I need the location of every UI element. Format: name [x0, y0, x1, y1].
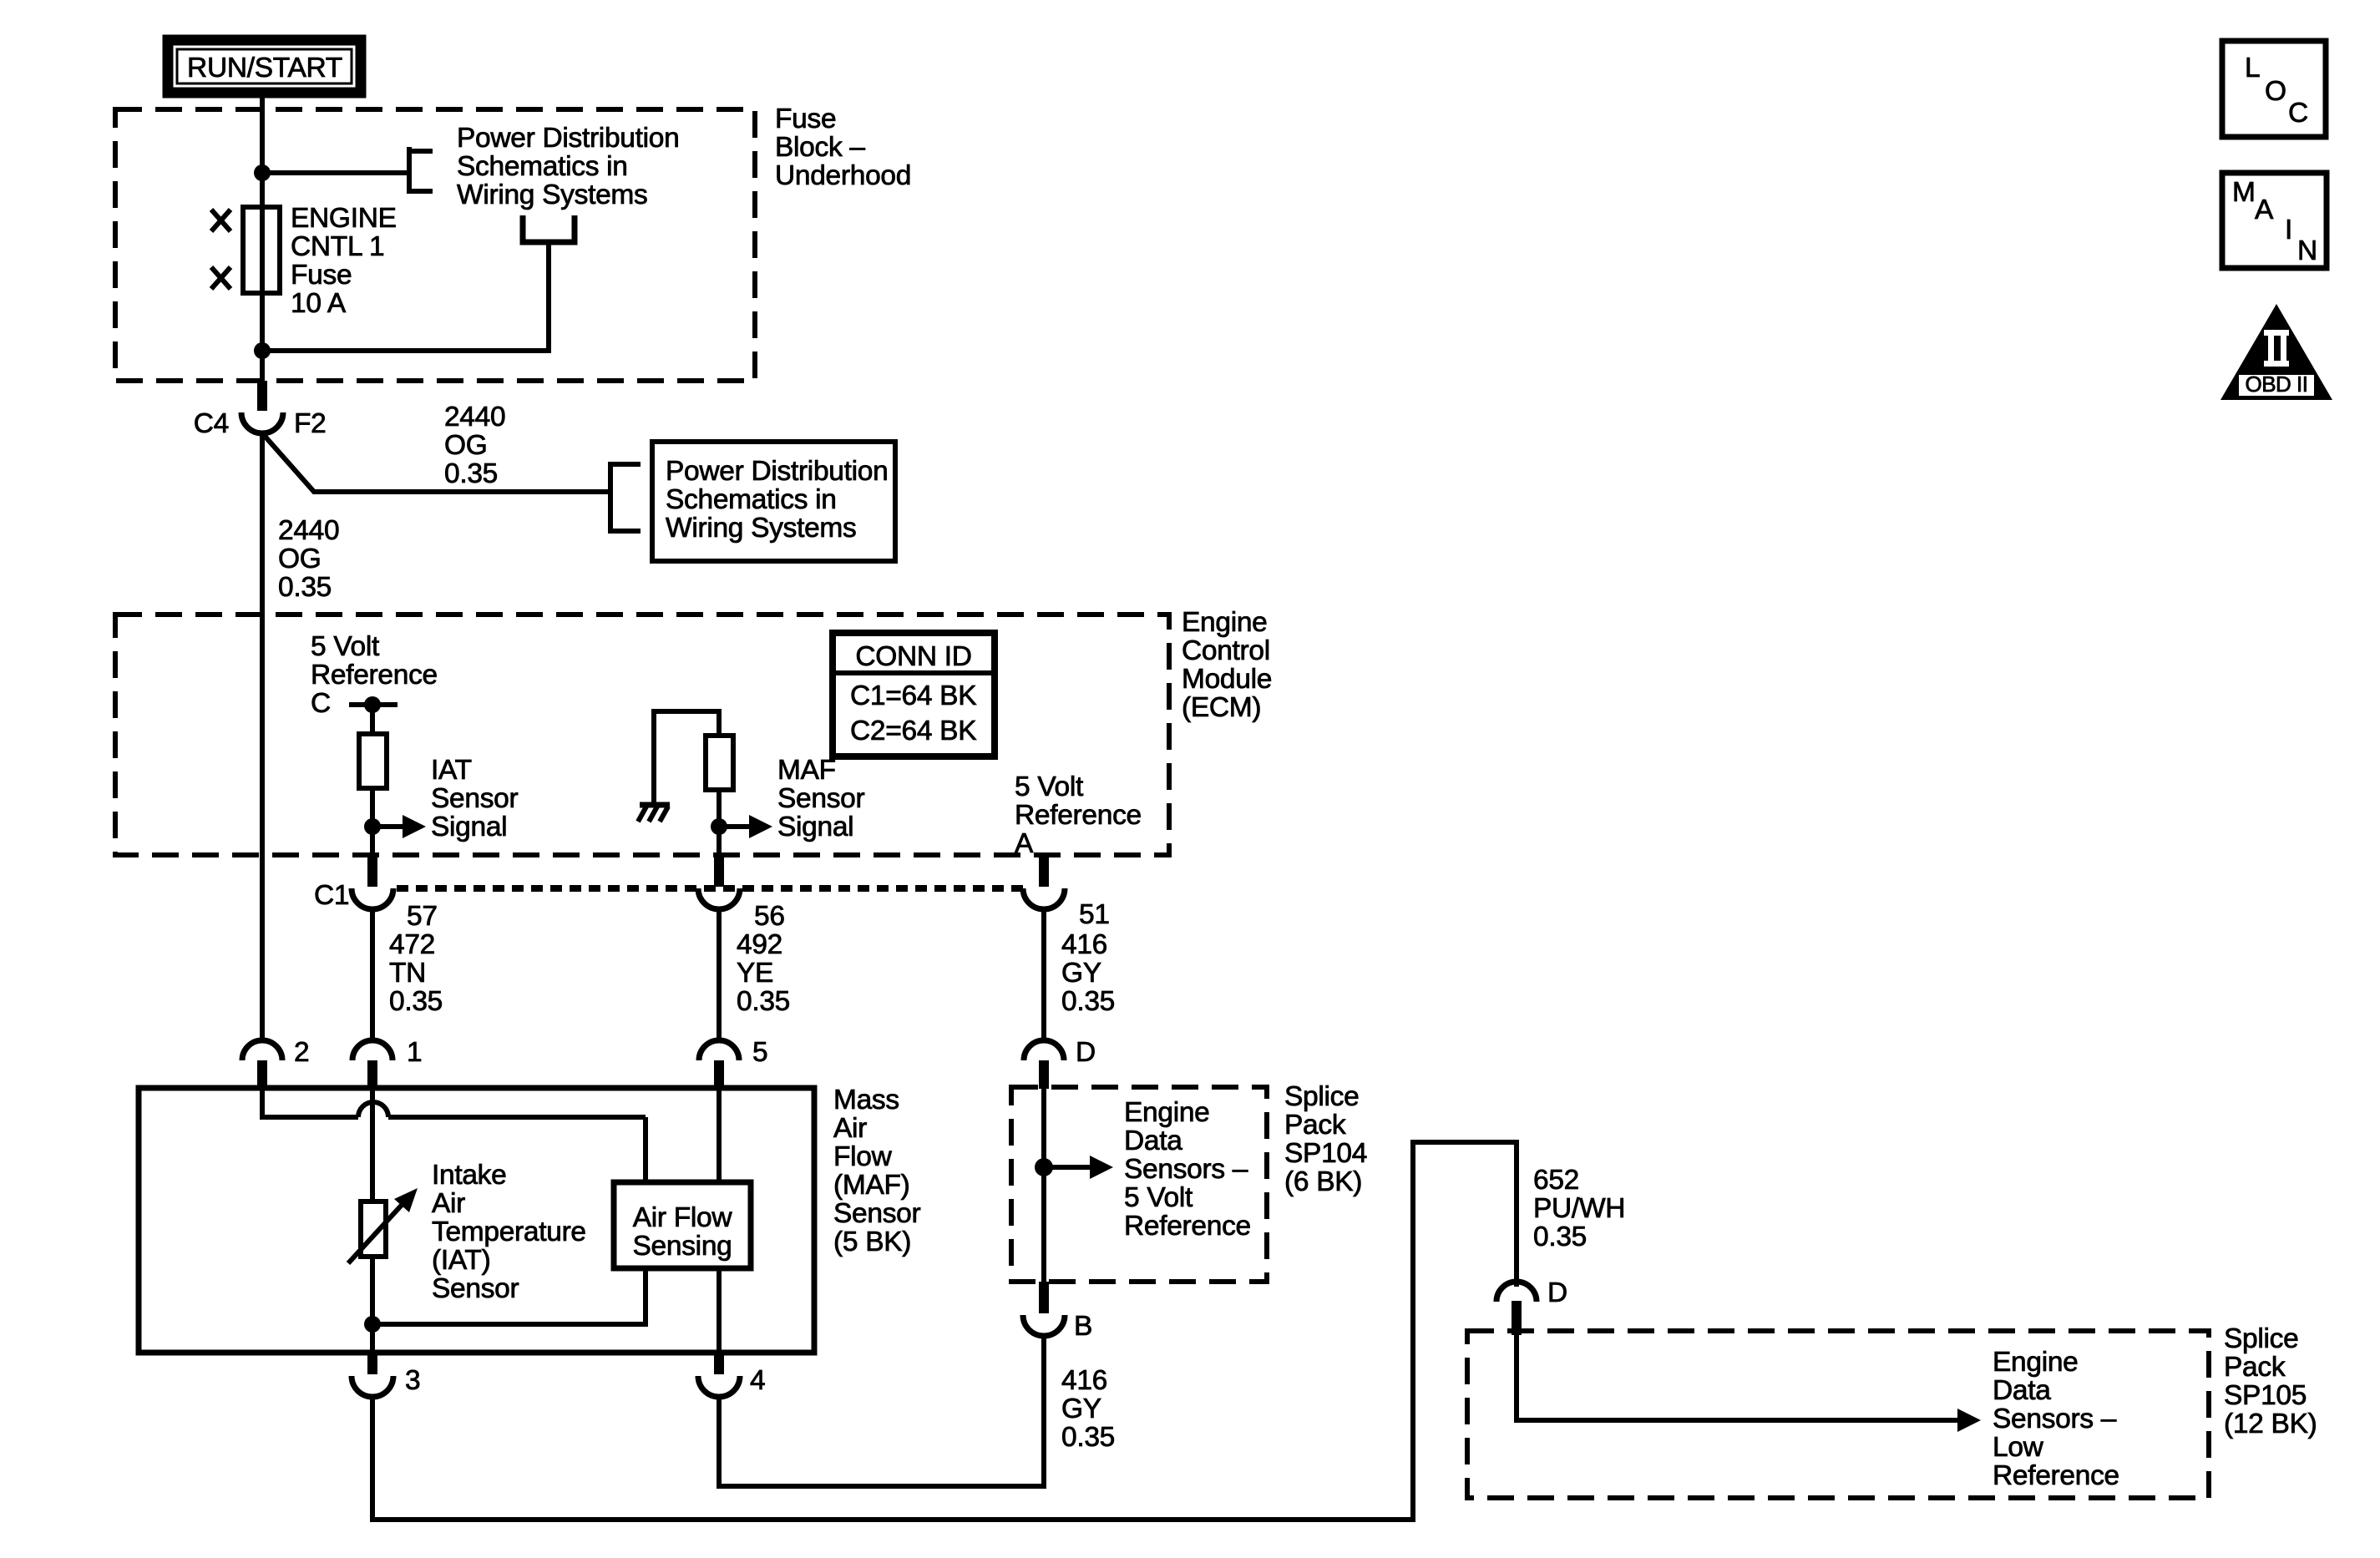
label pin B [1074, 1311, 1092, 1342]
wire label 2440 OG 0.35 (branch) [444, 402, 505, 489]
svg-text:0.35: 0.35 [1061, 986, 1115, 1017]
connector MAF pin 2 stub [257, 1060, 267, 1090]
svg-text:Intake: Intake [432, 1160, 506, 1191]
svg-text:2: 2 [294, 1037, 309, 1068]
svg-text:A: A [2255, 195, 2274, 225]
svg-text:Reference: Reference [1015, 800, 1142, 831]
connector pin B cup [1023, 1315, 1065, 1336]
svg-text:RUN/START: RUN/START [187, 53, 342, 83]
label IAT Sensor Signal [431, 755, 518, 842]
svg-text:N: N [2297, 235, 2317, 266]
ECM dashed box [115, 615, 1169, 855]
svg-text:YE: YE [737, 958, 773, 989]
svg-text:Module: Module [1182, 664, 1272, 695]
connector C1 pin 57 cup [352, 888, 393, 909]
svg-text:492: 492 [737, 929, 782, 960]
svg-text:10 A: 10 A [291, 288, 347, 319]
svg-text:L: L [2245, 53, 2260, 83]
svg-text:Pack: Pack [2224, 1352, 2286, 1383]
connector C1 pin 51 cup [1023, 888, 1065, 909]
wire resistor to IAT node [370, 788, 375, 863]
label pin D (SP105) [1547, 1277, 1567, 1308]
switch feed label RUN/START [168, 40, 361, 93]
svg-text:C: C [311, 688, 331, 719]
svg-text:Power Distribution: Power Distribution [457, 123, 679, 154]
svg-text:F2: F2 [294, 408, 327, 439]
svg-text:Splice: Splice [2224, 1323, 2298, 1354]
node junction below fuse [254, 342, 271, 359]
wire pin 5 to air flow sensing [717, 1085, 722, 1185]
svg-text:(ECM): (ECM) [1182, 692, 1261, 723]
svg-text:Sensor: Sensor [431, 783, 518, 814]
svg-text:OBD II: OBD II [2245, 372, 2307, 397]
svg-text:TN: TN [389, 958, 426, 989]
MAIN reference box [2222, 173, 2327, 268]
thermistor IAT [361, 1201, 386, 1257]
wire label 416 GY 0.35 (upper) [1061, 929, 1115, 1017]
connector C1 dotted line [397, 885, 1023, 892]
svg-text:472: 472 [389, 929, 435, 960]
OBD II symbol [2220, 304, 2332, 400]
svg-text:57: 57 [407, 901, 438, 932]
svg-text:Sensor: Sensor [777, 783, 864, 814]
svg-text:D: D [1076, 1037, 1096, 1068]
wire from RUN/START through fuse [260, 93, 265, 383]
fuse test point X lower [211, 267, 230, 289]
svg-text:2440: 2440 [444, 402, 505, 432]
svg-text:Engine: Engine [1124, 1097, 1210, 1128]
label 5 Volt Reference C [311, 631, 438, 719]
svg-text:CONN ID: CONN ID [855, 641, 971, 672]
svg-text:5: 5 [752, 1037, 767, 1068]
wire MAF pull-up top loop [654, 711, 719, 805]
svg-text:Sensor: Sensor [432, 1273, 519, 1304]
svg-text:Power Distribution: Power Distribution [666, 456, 888, 487]
svg-text:Wiring Systems: Wiring Systems [457, 180, 647, 210]
svg-text:C4: C4 [194, 408, 229, 439]
svg-text:Signal: Signal [431, 812, 507, 842]
svg-text:Wiring Systems: Wiring Systems [666, 513, 856, 544]
svg-text:Fuse: Fuse [291, 260, 352, 291]
bracket to Power Distribution Schematics (upper) [409, 147, 433, 194]
bracket to Power Distribution Schematics (boxed) [610, 462, 641, 534]
node IAT sensor signal [364, 818, 381, 835]
label Intake Air Temperature (IAT) Sensor [432, 1160, 586, 1304]
label pin 56 [754, 901, 785, 932]
svg-text:SP104: SP104 [1284, 1138, 1367, 1169]
node MAF sensor signal [711, 818, 727, 835]
svg-text:Schematics in: Schematics in [666, 484, 837, 515]
wire 492 YE from pin 56 to pin 5 [717, 909, 722, 1043]
label MAF Sensor Signal [777, 755, 864, 842]
label Splice Pack SP105 (12 BK) [2224, 1323, 2317, 1439]
wire 416 GY from pin 51 to pin D [1041, 909, 1046, 1043]
svg-text:PU/WH: PU/WH [1533, 1193, 1625, 1224]
svg-text:(IAT): (IAT) [432, 1245, 490, 1276]
fuse label ENGINE CNTL 1 Fuse 10 A [291, 203, 397, 319]
bracket below Wiring Systems text [523, 215, 575, 242]
connector MAF pin 5 cup [699, 1040, 739, 1060]
svg-text:Air Flow: Air Flow [633, 1202, 733, 1233]
resistor IAT pull-up [359, 734, 387, 788]
label Engine Data Sensors Low Reference [1993, 1347, 2119, 1491]
svg-text:Sensors –: Sensors – [1993, 1404, 2117, 1434]
svg-text:2440: 2440 [278, 515, 339, 546]
splice pack SP105 dashed box [1467, 1331, 2209, 1498]
node at C terminal [364, 696, 381, 713]
wire IAT low to pin 3 [370, 1324, 375, 1353]
connector C1 pin 57 stub [367, 857, 377, 887]
svg-text:SP105: SP105 [2224, 1380, 2307, 1411]
MAF sensor box [139, 1088, 814, 1353]
wire 472 TN from pin 57 to pin 1 [370, 909, 375, 1043]
svg-text:C1: C1 [314, 880, 349, 911]
connector MAF pin 4 cup [698, 1376, 740, 1397]
svg-text:4: 4 [750, 1365, 765, 1396]
connector splice pin D cup [1024, 1040, 1064, 1060]
connector MAF pin 1 stub [367, 1060, 377, 1090]
svg-text:Mass: Mass [833, 1085, 899, 1115]
svg-text:Engine: Engine [1182, 607, 1268, 638]
svg-text:Pack: Pack [1284, 1110, 1346, 1141]
label pin 3 [405, 1365, 420, 1396]
wire pin D into SP105 [1514, 1333, 1519, 1423]
label Mass Air Flow (MAF) Sensor (5 BK) [833, 1085, 920, 1257]
svg-text:Reference: Reference [1993, 1460, 2119, 1491]
label Power Distribution Schematics in Wiring Systems (upper) [457, 123, 679, 210]
svg-text:Data: Data [1993, 1375, 2051, 1406]
wire diagonal from C4 to callout box [263, 434, 610, 492]
connector C4 pin F2 cup [241, 412, 283, 433]
connector MAF pin 3 stub [367, 1353, 377, 1374]
connector C1 pin 56 stub [714, 857, 724, 887]
svg-text:C2=64 BK: C2=64 BK [850, 716, 976, 746]
wire pin 1 to IAT thermistor [370, 1085, 375, 1204]
wire resistor to MAF node [717, 790, 722, 863]
svg-text:CNTL 1: CNTL 1 [291, 231, 384, 262]
node junction above fuse [254, 164, 271, 181]
label Engine Control Module (ECM) [1182, 607, 1272, 723]
svg-text:Control: Control [1182, 635, 1270, 666]
wire IAT low to air flow sensing [372, 1268, 646, 1324]
box Air Flow Sensing [614, 1182, 751, 1268]
label Air Flow Sensing [633, 1202, 733, 1262]
svg-text:0.35: 0.35 [444, 458, 498, 489]
label pin 4 [750, 1365, 765, 1396]
svg-text:0.35: 0.35 [737, 986, 790, 1017]
svg-text:Sensor: Sensor [833, 1198, 920, 1229]
label 5 Volt Reference A [1015, 771, 1142, 859]
svg-text:416: 416 [1061, 1365, 1107, 1396]
fuse block - underhood label [775, 104, 911, 191]
wire 416 GY from pin B to MAF pin 4 [719, 1336, 1044, 1486]
svg-text:Air: Air [833, 1113, 867, 1144]
CONN ID rows [850, 680, 976, 746]
svg-text:5 Volt: 5 Volt [1015, 771, 1084, 802]
svg-text:MAF: MAF [777, 755, 836, 786]
box Power Distribution Schematics in Wiring Systems [652, 442, 895, 561]
connector MAF pin 5 stub [714, 1060, 724, 1090]
fuse block - underhood dashed box [115, 109, 755, 381]
arrow MAF sensor signal [719, 815, 772, 838]
svg-text:OG: OG [278, 544, 322, 574]
svg-text:(12 BK): (12 BK) [2224, 1409, 2317, 1439]
splice pack SP104 dashed box [1011, 1087, 1267, 1282]
arrow engine data sensors low reference [1517, 1409, 1981, 1432]
svg-text:5 Volt: 5 Volt [311, 631, 380, 662]
wire label 2440 OG 0.35 (main) [278, 515, 339, 603]
arrow IAT sensor signal [372, 815, 426, 838]
label Engine Data Sensors 5 Volt Reference [1124, 1097, 1251, 1242]
svg-text:0.35: 0.35 [278, 572, 332, 603]
svg-text:0.35: 0.35 [1061, 1422, 1115, 1453]
svg-text:(5 BK): (5 BK) [833, 1227, 911, 1257]
svg-text:ENGINE: ENGINE [291, 203, 397, 234]
svg-text:Reference: Reference [311, 660, 438, 690]
fuse test point X upper [211, 210, 230, 231]
wire branch to power distribution callout [262, 170, 409, 175]
svg-text:Engine: Engine [1993, 1347, 2079, 1378]
svg-text:Schematics in: Schematics in [457, 151, 628, 182]
svg-text:(6 BK): (6 BK) [1284, 1166, 1362, 1197]
svg-text:416: 416 [1061, 929, 1107, 960]
svg-text:652: 652 [1533, 1165, 1579, 1196]
connector pin D (SP105) cup [1496, 1282, 1537, 1302]
label pin 5 [752, 1037, 767, 1068]
label pin 2 [294, 1037, 309, 1068]
svg-text:GY: GY [1061, 958, 1101, 989]
svg-text:I: I [2285, 215, 2292, 245]
CONN ID box [833, 633, 995, 756]
svg-text:51: 51 [1079, 899, 1110, 930]
wire 652 PU/WH from MAF pin 3 to splice pack SP105 [372, 1142, 1517, 1520]
label Splice Pack SP104 (6 BK) [1284, 1081, 1367, 1197]
svg-text:Reference: Reference [1124, 1211, 1251, 1242]
connector C4 pin F2 stub [257, 381, 267, 411]
svg-text:Signal: Signal [777, 812, 853, 842]
wire 2440 OG from C4 to MAF sensor pin 2 [260, 433, 265, 1043]
ground inside ECM [638, 805, 670, 822]
fuse ENGINE CNTL 1 [243, 207, 280, 293]
svg-text:Splice: Splice [1284, 1081, 1359, 1112]
svg-text:(MAF): (MAF) [833, 1170, 910, 1201]
svg-text:Low: Low [1993, 1432, 2044, 1463]
label C1 [314, 880, 349, 911]
svg-text:IAT: IAT [431, 755, 472, 786]
svg-text:Sensors –: Sensors – [1124, 1154, 1248, 1185]
LOC reference box [2222, 41, 2326, 137]
svg-text:Block –: Block – [775, 132, 865, 163]
svg-text:0.35: 0.35 [1533, 1222, 1587, 1252]
svg-text:GY: GY [1061, 1394, 1101, 1424]
wire C terminal to resistor [370, 705, 375, 736]
wire air flow sensing to pin 4 [717, 1268, 722, 1353]
wire label 416 GY 0.35 (lower) [1061, 1365, 1115, 1453]
connector pin B stub [1039, 1282, 1049, 1313]
svg-text:B: B [1074, 1311, 1092, 1342]
resistor MAF pull-up [706, 736, 733, 790]
label C4 [194, 408, 229, 439]
svg-text:OG: OG [444, 430, 488, 461]
svg-text:C1=64 BK: C1=64 BK [850, 680, 976, 711]
wire label 652 PU/WH 0.35 [1533, 1165, 1625, 1252]
label pin D (upper) [1076, 1037, 1096, 1068]
wire IAT thermistor to low node [370, 1257, 375, 1324]
svg-text:0.35: 0.35 [389, 986, 443, 1017]
connector splice pin D stub [1039, 1060, 1049, 1089]
svg-text:M: M [2232, 177, 2256, 208]
wire pin D into splice pack SP104 [1041, 1085, 1046, 1282]
wire label 492 YE 0.35 [737, 929, 790, 1017]
label pin 1 [407, 1037, 422, 1068]
connector MAF pin 3 cup [352, 1376, 393, 1397]
label pin 57 [407, 901, 438, 932]
svg-text:Underhood: Underhood [775, 160, 911, 191]
terminal bar at C [349, 702, 398, 707]
svg-text:Temperature: Temperature [432, 1217, 586, 1247]
node IAT low [364, 1316, 381, 1333]
svg-text:Air: Air [432, 1188, 465, 1219]
wire pin 2 to air flow sensing with hop [262, 1102, 646, 1185]
svg-text:1: 1 [407, 1037, 422, 1068]
svg-text:56: 56 [754, 901, 785, 932]
thermistor arrow [348, 1188, 418, 1263]
svg-text:O: O [2265, 76, 2286, 107]
svg-text:Sensing: Sensing [633, 1231, 732, 1262]
svg-text:D: D [1547, 1277, 1567, 1308]
svg-text:Fuse: Fuse [775, 104, 836, 134]
connector C1 pin 51 stub [1039, 857, 1049, 887]
connector MAF pin 4 stub [714, 1353, 724, 1374]
connector C1 pin 56 cup [698, 888, 740, 909]
svg-text:Flow: Flow [833, 1141, 893, 1172]
svg-text:Data: Data [1124, 1126, 1182, 1156]
arrow engine data sensors 5 volt reference [1044, 1156, 1113, 1179]
connector MAF pin 1 cup [352, 1040, 392, 1060]
wire pin 2 into MAF box [260, 1085, 265, 1120]
wire label 472 TN 0.35 [389, 929, 443, 1017]
connector pin D (SP105) stub [1512, 1301, 1522, 1335]
svg-text:3: 3 [405, 1365, 420, 1396]
node SP104 splice [1035, 1158, 1053, 1176]
svg-text:5 Volt: 5 Volt [1124, 1182, 1193, 1213]
wire from bracket down to lower junction [267, 244, 549, 351]
svg-text:C: C [2288, 98, 2308, 129]
label pin 51 [1079, 899, 1110, 930]
label Power Distribution Schematics in Wiring Systems (boxed) [666, 456, 888, 544]
label F2 [294, 408, 327, 439]
svg-text:A: A [1015, 828, 1034, 859]
connector MAF pin 2 cup [242, 1040, 282, 1060]
